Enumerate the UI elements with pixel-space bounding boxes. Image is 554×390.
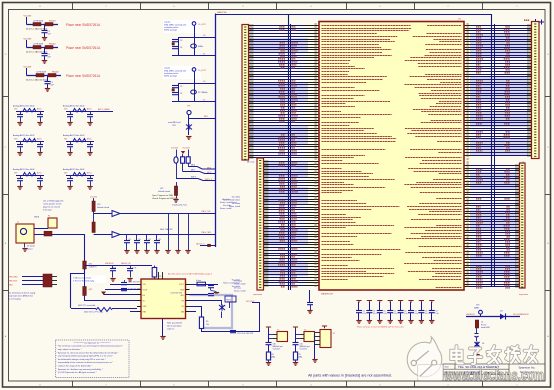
ground [408, 321, 413, 324]
wire MD1b [183, 172, 216, 174]
wire bus vertical x215 [215, 14, 217, 248]
jumper JP4 [92, 222, 95, 233]
ground [185, 251, 190, 254]
capacitor C23 [121, 289, 127, 291]
jumper JP3 [92, 201, 95, 212]
ferrite bead L6 [48, 74, 56, 77]
ground [312, 360, 317, 363]
wire xtal bottom [172, 101, 216, 103]
capacitor C13 [20, 142, 22, 145]
capacitor C19 [40, 142, 42, 145]
wire vertical bus x291 [290, 24, 292, 290]
ferrite bead L1 [33, 23, 41, 26]
ground [154, 251, 159, 254]
resistor R22 [197, 282, 206, 286]
wire [22, 284, 43, 286]
wire vertical bus x494 [494, 24, 496, 287]
net label AVCC_MAIN [94, 111, 113, 113]
watermark text dianzifashaoyou [451, 346, 537, 364]
wires band lower-right [464, 165, 471, 167]
ferrite bead L3 [33, 46, 41, 49]
inductor L7 [23, 109, 36, 113]
capacitor C26 [208, 294, 214, 296]
zone dividers sides [3, 96, 9, 98]
net labels left band columns [279, 26, 285, 28]
resistor R10 [174, 157, 178, 163]
crystal oscillator group 2 [163, 66, 201, 79]
fuse QF1 [83, 261, 87, 269]
resistor RY1 [266, 352, 270, 360]
wires band upper-right [464, 25, 471, 27]
ground [110, 279, 115, 282]
resistor RY2 [293, 352, 297, 360]
resistor R11 [181, 157, 185, 163]
inductor L11 [23, 173, 36, 177]
wire [190, 306, 203, 308]
capacitor C17 [40, 112, 42, 115]
resistor R21 zigzag [96, 308, 112, 312]
wire vertical bus x288 [288, 14, 290, 290]
buffer triangle 1 [112, 211, 120, 217]
capacitor CJ1 [126, 235, 128, 241]
capacitor C3 [47, 76, 49, 82]
connector CN4 right lower [520, 163, 526, 288]
wire [190, 294, 209, 296]
highlight stripes right bands [470, 34, 528, 57]
ground [17, 153, 22, 156]
ground [42, 61, 47, 64]
capacitor C22 [90, 176, 92, 179]
capacitor CD5 [398, 301, 403, 303]
wire [309, 290, 311, 302]
pin stub [137, 289, 141, 291]
crystal group Y2 [266, 327, 271, 329]
capacitor CX3 [172, 86, 178, 88]
ground [124, 251, 129, 254]
wire top horizontal y14.3 [216, 14, 493, 16]
regulator U2 [141, 279, 186, 319]
connector CN2 expansion lower-left [257, 158, 264, 290]
ground [175, 251, 180, 254]
wire xtal vertical [194, 72, 196, 102]
wire drop [188, 214, 190, 251]
wire [85, 296, 138, 301]
capacitor C18 [90, 112, 92, 115]
watermark logo elecfans [407, 337, 443, 381]
wire [190, 284, 219, 286]
wire [71, 269, 85, 308]
capacitor C20 [90, 142, 92, 145]
resistor R23 [199, 317, 203, 329]
wire TCK [120, 213, 216, 215]
wire 5V rail [85, 265, 153, 267]
inductor L10 [73, 139, 86, 143]
wire to regulator [52, 235, 85, 262]
jumper JP2 [174, 186, 177, 196]
wire drop [168, 214, 170, 251]
ground [37, 153, 42, 156]
diode D4 [475, 342, 480, 348]
ground [37, 187, 42, 190]
test point circle TP1 [187, 110, 191, 114]
pin stub [137, 311, 141, 313]
osc pin circle [192, 68, 196, 72]
capacitor CJ2 [136, 235, 138, 241]
ground [419, 321, 424, 324]
connector CN3 right upper [532, 22, 540, 159]
capacitor C11 [20, 112, 22, 115]
ground [67, 123, 72, 126]
capacitor C14 [70, 142, 72, 145]
capacitor CD7 [419, 301, 424, 303]
ground [87, 123, 92, 126]
ground [87, 153, 92, 156]
capacitor C27 [230, 331, 236, 333]
ferrite bead L5 [36, 74, 44, 77]
choke L6 [475, 320, 478, 328]
ground [134, 251, 139, 254]
ground [186, 137, 191, 140]
capacitor CY1 [266, 343, 272, 345]
ground [266, 363, 271, 366]
wire xtal top [178, 37, 216, 39]
resistor R12 [186, 157, 190, 163]
capacitor CD4 [388, 301, 393, 303]
disclaimer note box [56, 340, 130, 378]
wire INITX [176, 179, 216, 181]
ground [356, 321, 361, 324]
fuse QF2 [83, 287, 87, 296]
wire [24, 243, 26, 248]
ground [214, 293, 219, 296]
capacitor CX2 [172, 47, 178, 49]
crystal group Y3 [293, 327, 298, 329]
pin stub [137, 306, 141, 308]
wire [130, 311, 137, 313]
MCU pin names right column [404, 26, 461, 288]
ground [144, 251, 149, 254]
capacitor C21 [40, 176, 42, 179]
choke L5 [44, 231, 52, 236]
capacitor C31 [307, 303, 313, 305]
ground [45, 89, 50, 92]
capacitor C12 [70, 112, 72, 115]
esd diode D1 [186, 124, 192, 130]
ground [17, 187, 22, 190]
oscillator module X2 [322, 326, 327, 328]
pin stub [137, 294, 141, 296]
wire highlight loop [190, 295, 233, 328]
wire [466, 316, 520, 318]
wire [190, 311, 197, 313]
capacitor C2 [44, 48, 46, 54]
wire top right [535, 19, 537, 22]
ground [398, 321, 403, 324]
wire [84, 295, 86, 297]
wire vertical bus x492 [491, 14, 493, 287]
capacitor C1 [44, 25, 46, 31]
crystal Y1 [191, 44, 197, 48]
wire [105, 289, 137, 291]
highlight stripes left bands [249, 38, 308, 52]
wire [22, 276, 43, 278]
crystal Y2 [191, 90, 197, 94]
ground [87, 187, 92, 190]
dc jack J1 [16, 224, 34, 243]
ground [160, 337, 165, 340]
net labels right band columns [476, 26, 481, 28]
MCU pin numbers [315, 24, 469, 287]
ground [367, 321, 372, 324]
capacitor CD1 [356, 301, 361, 303]
ground [307, 311, 312, 314]
ground [173, 200, 178, 203]
capacitor CD8 [429, 301, 434, 303]
capacitor C16 [70, 176, 72, 179]
ground [388, 321, 393, 324]
capacitor CX1 [172, 40, 178, 42]
ground [293, 363, 298, 366]
ferrite bead L2 [45, 23, 53, 26]
capacitor CD3 [377, 301, 382, 303]
ground [37, 123, 42, 126]
capacitor CX4 [172, 93, 178, 95]
capacitor C32 [475, 334, 479, 337]
diode D3 [500, 314, 505, 320]
capacitor CJ3 [146, 235, 148, 241]
resistor R20 [152, 268, 157, 278]
capacitor CD2 [367, 301, 372, 303]
svg-text:www.elecfans.com: www.elecfans.com [443, 368, 544, 384]
ferrite bead L4 [45, 46, 53, 49]
wire [110, 284, 137, 286]
inductor L12 [73, 173, 86, 177]
wires band lower-left [264, 161, 269, 163]
zener D2 [219, 304, 225, 310]
wire [202, 303, 260, 332]
title block [443, 364, 545, 381]
crystal Y3 box [304, 332, 315, 342]
zone dividers top/bottom [72, 3, 74, 10]
capacitor CD6 [408, 301, 413, 303]
wire xtal bottom [172, 55, 216, 57]
ground [429, 321, 434, 324]
crystal oscillator group 1 [163, 20, 201, 33]
wire xtal vertical [194, 26, 196, 56]
ground [42, 38, 47, 41]
ground [377, 321, 382, 324]
net tag RESET [225, 296, 236, 302]
capacitor CY2 [293, 343, 299, 345]
watermark text www.elecfans.com [443, 368, 544, 384]
wire [189, 118, 216, 120]
capacitor C24 [210, 284, 212, 285]
ground [17, 123, 22, 126]
ground [67, 187, 72, 190]
wire [190, 300, 223, 302]
wire xtal top [178, 83, 216, 85]
wire [104, 294, 138, 296]
ground [22, 249, 27, 252]
ground [474, 355, 479, 358]
wire [34, 228, 48, 230]
capacitor C15 [20, 176, 22, 179]
inductor L8 [73, 109, 86, 113]
MCU U1 MB9BF618T [319, 22, 464, 291]
osc pin circle [192, 22, 196, 26]
wire MD0 [188, 167, 215, 170]
wire TMS [120, 234, 216, 236]
wire [34, 234, 44, 236]
capacitor CJ4 [156, 235, 158, 241]
ground [165, 251, 170, 254]
fuse F1 [48, 218, 57, 228]
capacitor C20 [112, 266, 114, 269]
crystal Y2 box [277, 332, 288, 342]
MCU pin names left column [322, 26, 412, 280]
wire [71, 308, 96, 310]
ground [67, 153, 72, 156]
wire [22, 280, 43, 282]
capacitor C22 [121, 283, 127, 285]
wires band upper-left [249, 25, 254, 27]
wire [188, 115, 190, 135]
wire [162, 319, 164, 337]
wire BOOT [200, 245, 216, 247]
ground [127, 279, 132, 282]
connector CN1 mini slot upper [242, 25, 249, 161]
pin stub [137, 300, 141, 302]
pin stub [137, 284, 141, 286]
capacitor C21 [130, 266, 132, 269]
buffer triangle 2 [112, 232, 120, 238]
inductor L9 [23, 139, 36, 143]
wire drop [178, 214, 180, 251]
